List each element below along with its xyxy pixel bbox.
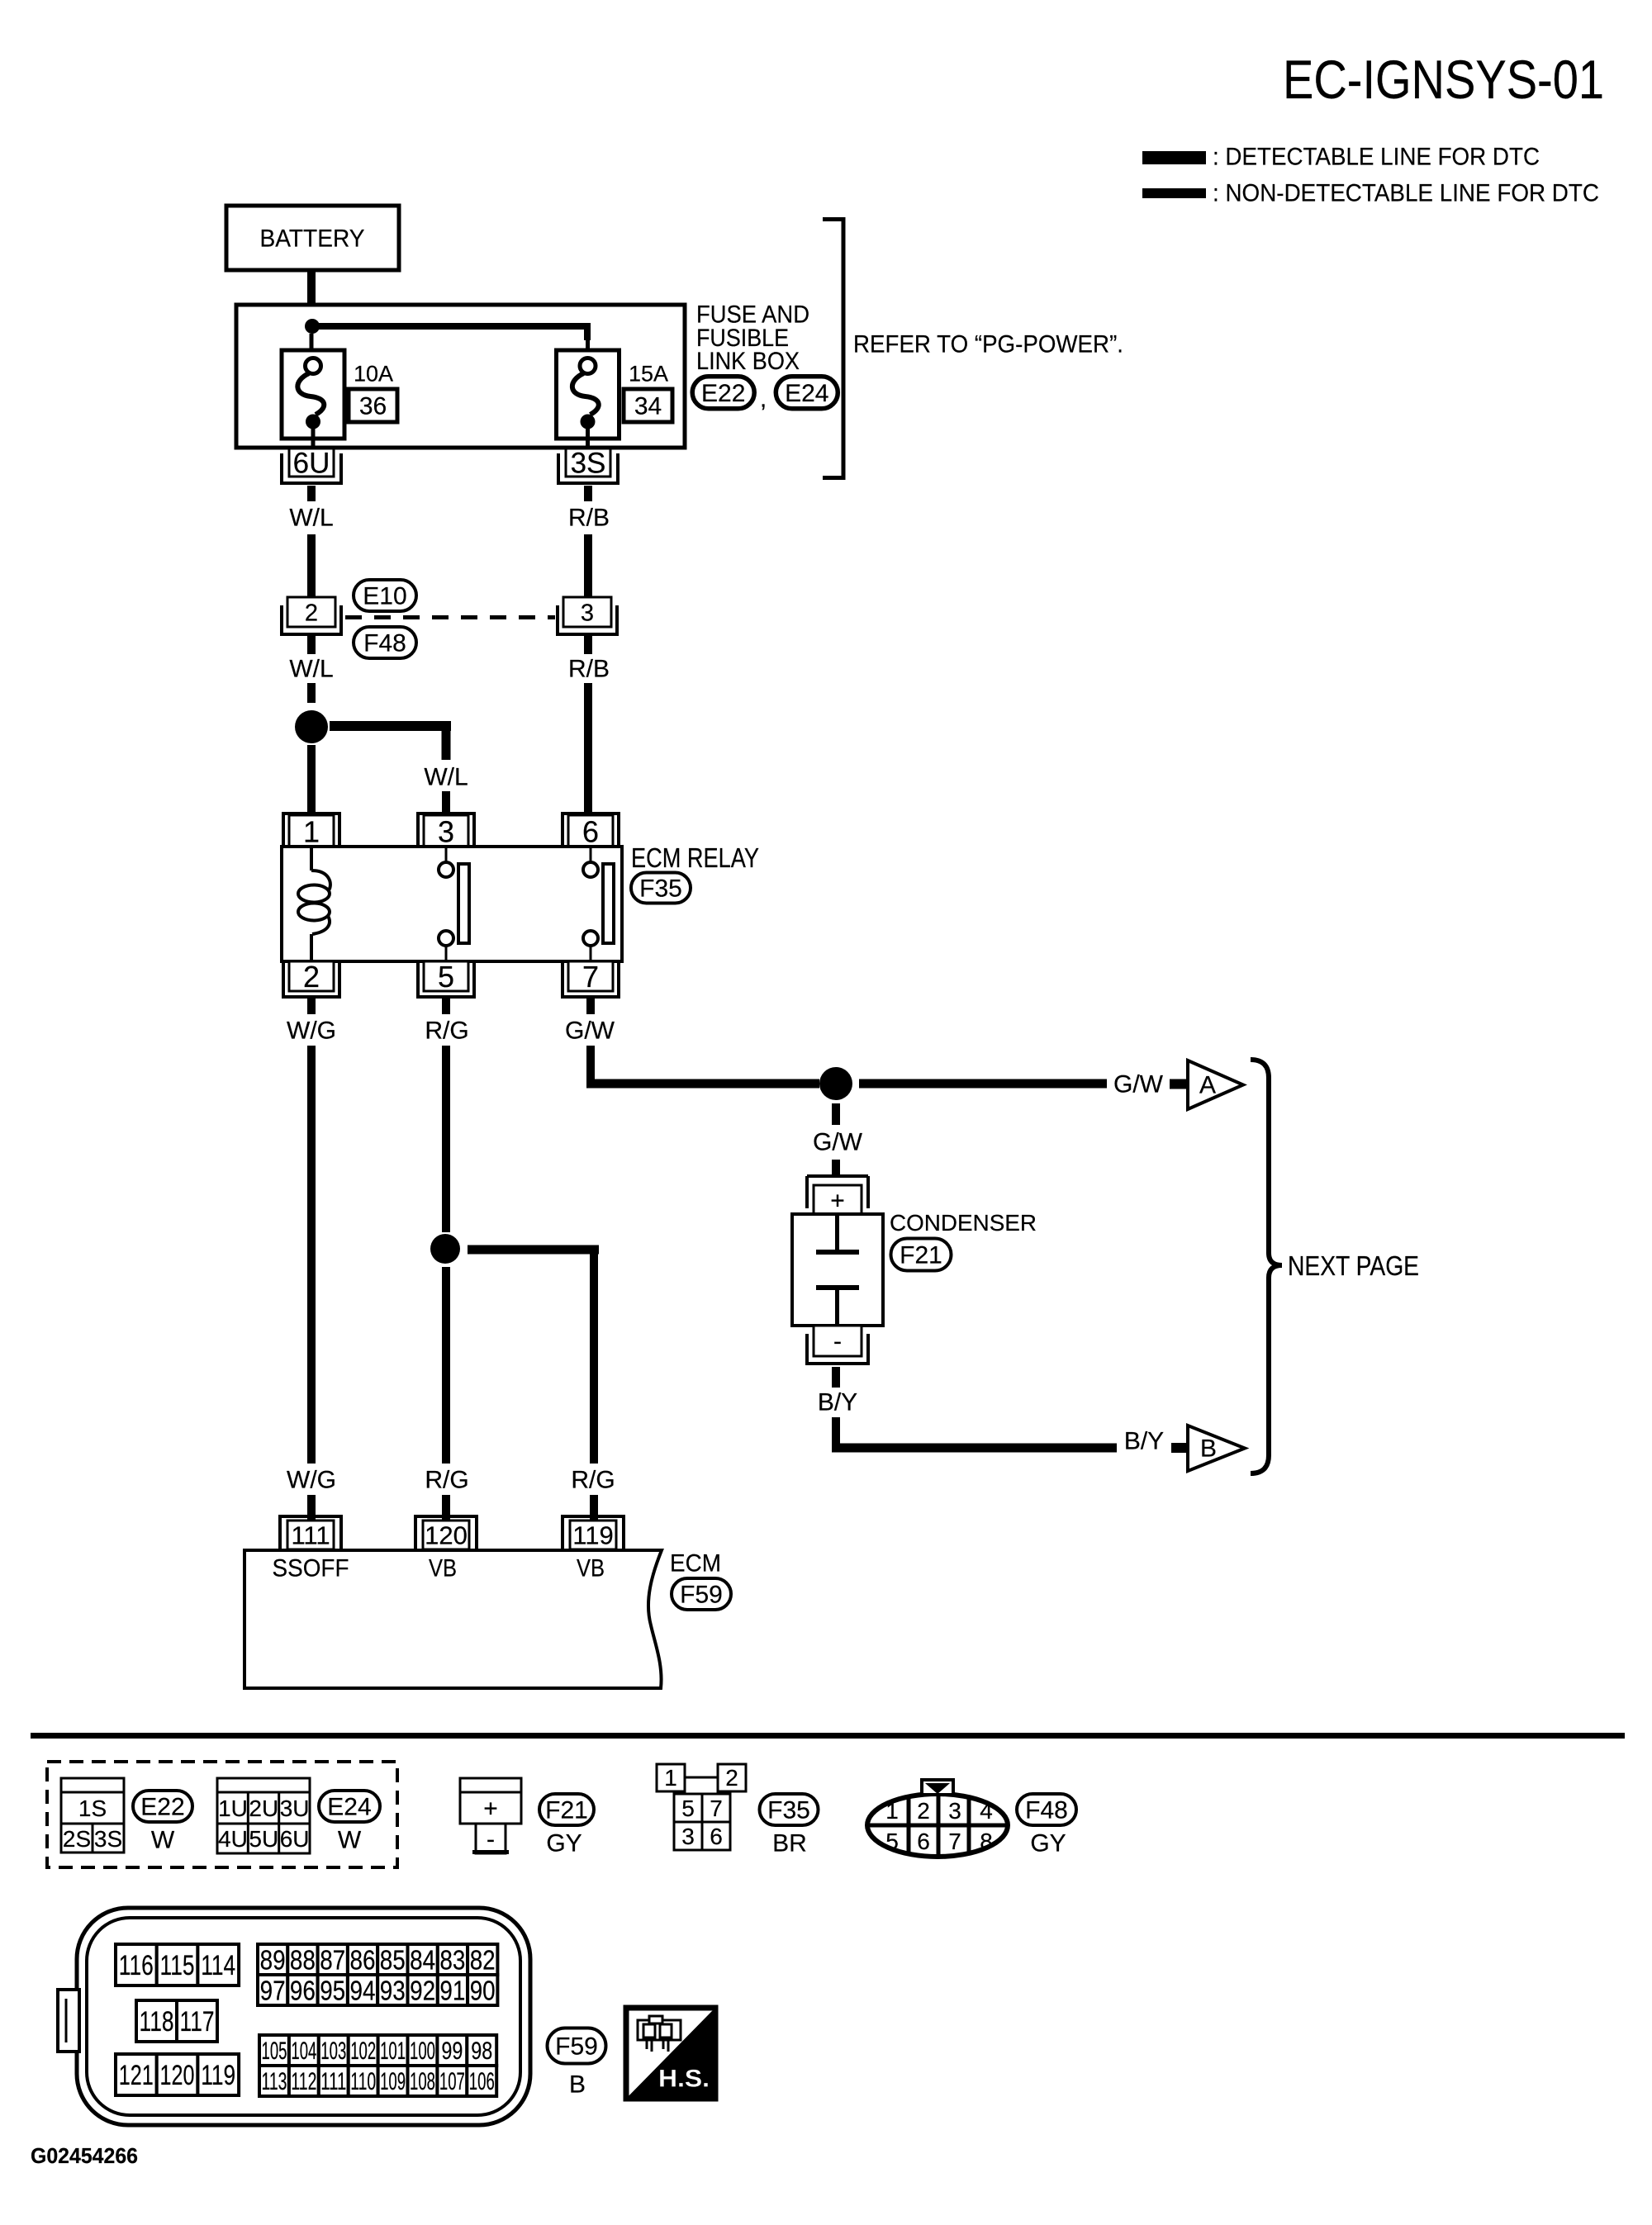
svg-text:ECM RELAY: ECM RELAY <box>631 842 759 873</box>
svg-text:87: 87 <box>320 1944 345 1975</box>
svg-text:6U: 6U <box>293 448 330 480</box>
svg-text:95: 95 <box>320 1975 345 2005</box>
svg-text:107: 107 <box>439 2068 465 2095</box>
svg-text:94: 94 <box>350 1975 376 2005</box>
svg-text:120: 120 <box>425 1521 468 1550</box>
svg-text:7: 7 <box>948 1829 961 1854</box>
svg-text:111: 111 <box>320 2068 346 2095</box>
svg-text:GY: GY <box>546 1830 582 1857</box>
svg-text:W/L: W/L <box>289 505 333 532</box>
svg-text:3: 3 <box>948 1798 961 1824</box>
svg-text:112: 112 <box>291 2068 316 2095</box>
svg-text:6: 6 <box>710 1824 723 1849</box>
svg-text:102: 102 <box>350 2038 376 2065</box>
svg-text:+: + <box>483 1796 498 1823</box>
svg-text:EC-IGNSYS-01: EC-IGNSYS-01 <box>1283 49 1604 110</box>
svg-text:: DETECTABLE LINE FOR DTC: : DETECTABLE LINE FOR DTC <box>1213 144 1540 171</box>
svg-text:G/W: G/W <box>813 1129 863 1156</box>
svg-text:116: 116 <box>119 1950 154 1981</box>
svg-text:BR: BR <box>772 1830 807 1857</box>
svg-text:90: 90 <box>470 1975 496 2005</box>
svg-text:H.S.: H.S. <box>658 2066 710 2093</box>
svg-text:1S: 1S <box>78 1796 107 1821</box>
svg-text:101: 101 <box>380 2038 406 2065</box>
svg-text:6: 6 <box>582 814 599 848</box>
svg-text:VB: VB <box>429 1555 457 1582</box>
svg-text:109: 109 <box>380 2068 406 2095</box>
svg-text:36: 36 <box>359 393 387 420</box>
svg-text:F35: F35 <box>767 1797 810 1824</box>
svg-text:-: - <box>833 1328 842 1355</box>
svg-text:G/W: G/W <box>565 1018 615 1045</box>
svg-text:R/G: R/G <box>425 1467 468 1494</box>
svg-text:113: 113 <box>262 2068 287 2095</box>
svg-text:SSOFF: SSOFF <box>273 1555 349 1582</box>
svg-text:3: 3 <box>438 814 454 848</box>
svg-text:96: 96 <box>290 1975 316 2005</box>
svg-text:CONDENSER: CONDENSER <box>890 1210 1037 1236</box>
svg-text:-: - <box>487 1826 495 1853</box>
svg-text:VB: VB <box>577 1555 605 1582</box>
svg-text:REFER TO “PG-POWER”.: REFER TO “PG-POWER”. <box>853 331 1123 358</box>
svg-text:R/G: R/G <box>571 1467 615 1494</box>
svg-text:93: 93 <box>380 1975 406 2005</box>
svg-text:3: 3 <box>581 600 594 626</box>
svg-text:W: W <box>151 1827 175 1854</box>
svg-text:82: 82 <box>470 1944 496 1975</box>
svg-text:85: 85 <box>380 1944 406 1975</box>
svg-text:108: 108 <box>410 2068 435 2095</box>
svg-text:F48: F48 <box>1025 1797 1068 1824</box>
svg-text:NEXT PAGE: NEXT PAGE <box>1288 1250 1419 1281</box>
svg-text:92: 92 <box>410 1975 435 2005</box>
svg-text:115: 115 <box>160 1950 195 1981</box>
svg-text:F35: F35 <box>639 875 682 903</box>
svg-text:1: 1 <box>303 814 320 848</box>
svg-text:1: 1 <box>664 1765 677 1791</box>
svg-text:104: 104 <box>291 2038 316 2065</box>
svg-text:G02454266: G02454266 <box>31 2143 138 2168</box>
svg-text:7: 7 <box>710 1796 723 1821</box>
svg-text:F21: F21 <box>545 1797 588 1824</box>
svg-text:34: 34 <box>634 393 662 420</box>
svg-text:2U: 2U <box>249 1796 278 1821</box>
svg-text:2: 2 <box>917 1798 930 1824</box>
svg-text:E22: E22 <box>701 380 745 407</box>
svg-text:ECM: ECM <box>670 1550 721 1577</box>
svg-text:88: 88 <box>290 1944 316 1975</box>
svg-text:111: 111 <box>291 1521 330 1550</box>
svg-text:E22: E22 <box>140 1794 184 1821</box>
svg-text:3U: 3U <box>280 1796 310 1821</box>
svg-text:,: , <box>760 386 767 413</box>
svg-text:R/G: R/G <box>425 1018 468 1045</box>
svg-text:114: 114 <box>201 1950 235 1981</box>
svg-text:8: 8 <box>980 1829 993 1854</box>
svg-text:B: B <box>569 2071 586 2099</box>
svg-text:91: 91 <box>439 1975 465 2005</box>
svg-text:+: + <box>830 1188 845 1215</box>
svg-text:6U: 6U <box>280 1826 310 1852</box>
svg-text:E24: E24 <box>327 1794 371 1821</box>
svg-text:99: 99 <box>441 2038 463 2065</box>
svg-text:E10: E10 <box>363 583 406 610</box>
svg-text:84: 84 <box>410 1944 435 1975</box>
svg-text:F59: F59 <box>555 2033 598 2061</box>
svg-text:2S: 2S <box>63 1826 91 1852</box>
svg-text:119: 119 <box>201 2060 235 2091</box>
svg-text:120: 120 <box>160 2060 195 2091</box>
svg-text:6: 6 <box>917 1829 930 1854</box>
svg-text:2: 2 <box>725 1765 738 1791</box>
svg-text:1: 1 <box>885 1798 899 1824</box>
svg-text:4U: 4U <box>218 1826 248 1852</box>
svg-text:10A: 10A <box>354 362 393 387</box>
svg-text:W/G: W/G <box>287 1018 336 1045</box>
svg-text:119: 119 <box>572 1521 613 1550</box>
svg-text:105: 105 <box>262 2038 287 2065</box>
svg-text:B/Y: B/Y <box>818 1389 857 1416</box>
svg-text:W: W <box>338 1827 362 1854</box>
svg-text:GY: GY <box>1030 1830 1066 1857</box>
svg-text:7: 7 <box>582 960 599 994</box>
svg-text:2: 2 <box>305 600 318 626</box>
svg-text:: NON-DETECTABLE LINE FOR DTC: : NON-DETECTABLE LINE FOR DTC <box>1213 180 1599 207</box>
svg-text:98: 98 <box>471 2038 492 2065</box>
svg-text:5: 5 <box>438 960 454 994</box>
svg-text:BATTERY: BATTERY <box>260 225 365 253</box>
svg-text:5: 5 <box>885 1829 899 1854</box>
svg-text:3: 3 <box>681 1824 695 1849</box>
svg-text:E24: E24 <box>785 380 828 407</box>
svg-text:LINK BOX: LINK BOX <box>696 348 800 375</box>
svg-text:B: B <box>1200 1435 1217 1463</box>
svg-text:F59: F59 <box>680 1582 723 1609</box>
svg-text:5: 5 <box>681 1796 695 1821</box>
svg-text:5U: 5U <box>249 1826 278 1852</box>
svg-text:W/G: W/G <box>287 1467 336 1494</box>
svg-text:F21: F21 <box>900 1242 942 1269</box>
svg-text:2: 2 <box>303 960 320 994</box>
svg-text:3S: 3S <box>571 448 606 480</box>
svg-text:100: 100 <box>410 2038 435 2065</box>
svg-text:W/L: W/L <box>424 764 468 791</box>
svg-text:R/B: R/B <box>568 656 610 683</box>
svg-text:118: 118 <box>140 2006 174 2038</box>
svg-text:3S: 3S <box>94 1826 122 1852</box>
svg-text:F48: F48 <box>363 630 406 657</box>
svg-text:106: 106 <box>469 2068 495 2095</box>
svg-text:15A: 15A <box>629 362 668 387</box>
svg-text:1U: 1U <box>218 1796 248 1821</box>
svg-text:86: 86 <box>350 1944 376 1975</box>
svg-text:103: 103 <box>320 2038 346 2065</box>
svg-text:117: 117 <box>180 2006 215 2038</box>
svg-text:G/W: G/W <box>1113 1071 1164 1098</box>
svg-text:97: 97 <box>260 1975 286 2005</box>
svg-text:W/L: W/L <box>289 656 333 683</box>
svg-text:83: 83 <box>439 1944 465 1975</box>
svg-text:89: 89 <box>260 1944 286 1975</box>
svg-text:B/Y: B/Y <box>1124 1428 1164 1455</box>
svg-text:110: 110 <box>350 2068 376 2095</box>
svg-text:121: 121 <box>119 2060 154 2091</box>
svg-text:A: A <box>1199 1072 1216 1099</box>
svg-text:R/B: R/B <box>568 505 610 532</box>
svg-text:4: 4 <box>980 1798 993 1824</box>
